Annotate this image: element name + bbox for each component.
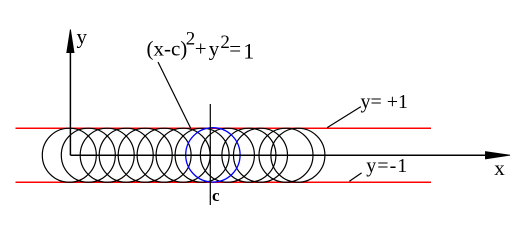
- svg-text:y= +1: y= +1: [361, 91, 409, 113]
- equation label (x-c)^2 + y^2 = 1: [147, 29, 255, 64]
- circle c5: [137, 128, 191, 182]
- circle c3: [99, 128, 153, 182]
- circle c11: [259, 128, 313, 182]
- circle c10: [234, 128, 288, 182]
- circle c6: [156, 128, 210, 182]
- circle c2: [80, 128, 134, 182]
- line y=-1 (red): [16, 181, 432, 183]
- y-axis arrowhead: [67, 30, 74, 53]
- line y=+1 (red): [16, 127, 432, 129]
- svg-text:+: +: [195, 37, 207, 61]
- svg-text:y=-1: y=-1: [366, 155, 408, 177]
- x-axis arrowhead: [486, 152, 511, 159]
- circle c8: [200, 128, 254, 182]
- pointer line from equation to blue circle: [158, 62, 191, 128]
- circle c4: [118, 128, 172, 182]
- highlighted circle (blue), center x=c: [186, 128, 240, 182]
- circle c0: [42, 128, 96, 182]
- pointer line from label y=-1 to red line: [349, 173, 361, 181]
- x-axis: [70, 154, 488, 156]
- svg-text:c: c: [212, 186, 220, 205]
- svg-text:y: y: [209, 36, 220, 60]
- svg-text:1: 1: [243, 38, 254, 63]
- circle c12: [271, 128, 325, 182]
- svg-text:(x-c): (x-c): [147, 36, 188, 60]
- circle c1: [61, 128, 115, 182]
- vertical line x=c: [209, 104, 211, 205]
- y-axis: [69, 50, 71, 155]
- circle c9: [222, 128, 276, 182]
- svg-text:y: y: [77, 25, 88, 49]
- pointer line from label y=+1 to red line: [327, 107, 361, 128]
- circle c7: [175, 128, 229, 182]
- svg-text:=: =: [229, 36, 241, 60]
- svg-text:x: x: [494, 156, 505, 180]
